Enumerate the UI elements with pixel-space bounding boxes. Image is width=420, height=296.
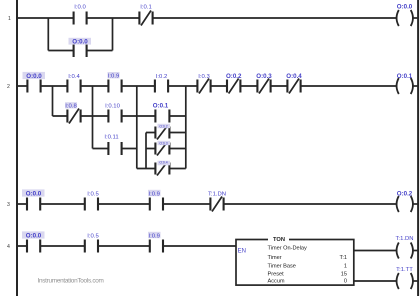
contact I:0.5 rung4 bbox=[85, 240, 98, 253]
svg-text:O:0.4: O:0.4 bbox=[159, 160, 167, 164]
contact O:0.0 rung4 bbox=[27, 240, 40, 253]
svg-text:Timer Base: Timer Base bbox=[268, 263, 296, 269]
highlight O:0.0 rung4 bbox=[22, 231, 45, 238]
coil O:0.1 bbox=[397, 78, 413, 94]
rung 2 branch verticals bbox=[52, 86, 54, 116]
svg-text:O:0.2: O:0.2 bbox=[397, 191, 413, 198]
coil O:0.2 bbox=[397, 196, 413, 212]
timer output wire DN bbox=[354, 280, 396, 282]
svg-text:I:0.9: I:0.9 bbox=[108, 74, 119, 80]
svg-text:I:0.8: I:0.8 bbox=[65, 103, 77, 109]
highlight I:0.8 bbox=[65, 102, 77, 108]
branch row NC O:0.4 wire bbox=[137, 168, 186, 170]
rung 1 wire bbox=[17, 17, 396, 19]
contact I:0.11 bbox=[108, 142, 121, 155]
svg-text:15: 15 bbox=[341, 272, 347, 278]
svg-text:O:0.1: O:0.1 bbox=[153, 103, 169, 110]
svg-text:Timer: Timer bbox=[268, 255, 282, 261]
contact T:1.DN NC rung3 bbox=[210, 197, 223, 212]
svg-text:T:1.DN: T:1.DN bbox=[395, 236, 413, 242]
svg-text:T:1: T:1 bbox=[340, 255, 347, 261]
right power rail bbox=[417, 0, 419, 296]
contact O:0.0 rung2 bbox=[27, 80, 40, 93]
branch row I:0.8 wire bbox=[53, 115, 93, 117]
contact O:0.4 NC small bbox=[155, 162, 169, 176]
highlight small O:0.3 bbox=[158, 141, 171, 145]
highlight I:0.9 rung2 bbox=[108, 72, 120, 78]
contact O:0.2 NC small bbox=[155, 126, 169, 140]
svg-text:I:0.4: I:0.4 bbox=[68, 74, 80, 80]
svg-text:O:0.0: O:0.0 bbox=[26, 73, 42, 80]
svg-text:I:0.11: I:0.11 bbox=[104, 135, 118, 141]
svg-text:I:0.9: I:0.9 bbox=[148, 233, 159, 239]
svg-text:O:0.0: O:0.0 bbox=[26, 191, 42, 198]
branch row O:0.1 wire bbox=[137, 115, 186, 117]
contact I:0.8 NC bbox=[67, 109, 80, 124]
svg-text:InstrumentationTools.com: InstrumentationTools.com bbox=[38, 277, 104, 284]
svg-text:4: 4 bbox=[7, 244, 10, 250]
contact I:0.0 bbox=[74, 12, 87, 25]
svg-text:O:0.0: O:0.0 bbox=[397, 4, 413, 11]
contact I:0.9 rung3 bbox=[150, 198, 163, 211]
contact O:0.0 seal-in bbox=[74, 44, 87, 57]
svg-text:O:0.3: O:0.3 bbox=[159, 141, 167, 145]
coil T:1.DN bbox=[397, 243, 413, 259]
branch row NC O:0.2 wire bbox=[146, 132, 186, 134]
svg-text:O:0.3: O:0.3 bbox=[256, 73, 272, 80]
contact O:0.2 NC bbox=[227, 79, 240, 94]
svg-text:Preset: Preset bbox=[268, 272, 285, 278]
svg-text:O:0.4: O:0.4 bbox=[286, 73, 302, 80]
contact O:0.4 NC bbox=[287, 79, 300, 94]
svg-text:O:0.1: O:0.1 bbox=[397, 73, 413, 80]
svg-text:I:0.10: I:0.10 bbox=[105, 104, 120, 110]
left power rail bbox=[16, 0, 18, 296]
rung 4 wire bbox=[17, 245, 236, 247]
svg-text:2: 2 bbox=[7, 84, 10, 90]
svg-text:O:0.0: O:0.0 bbox=[26, 233, 42, 240]
contact I:0.9 rung2 bbox=[108, 80, 121, 93]
timer block TON box bbox=[236, 240, 354, 286]
svg-text:Accum: Accum bbox=[268, 279, 285, 285]
contact I:0.10 bbox=[108, 110, 121, 123]
highlight I:0.9 rung3 bbox=[148, 190, 161, 196]
svg-text:I:0.0: I:0.0 bbox=[74, 5, 86, 11]
contact O:0.0 rung3 bbox=[27, 198, 40, 211]
svg-text:I:0.2: I:0.2 bbox=[156, 74, 167, 80]
rung 2 main wire bbox=[17, 85, 396, 87]
highlight small O:0.4 bbox=[158, 161, 171, 166]
contact I:0.2 bbox=[155, 80, 168, 93]
contact I:0.1 NC bbox=[139, 11, 152, 26]
branch row NC O:0.3 wire bbox=[146, 148, 186, 150]
svg-text:1: 1 bbox=[344, 263, 347, 269]
rung 1 branch wire bbox=[48, 18, 112, 51]
svg-text:Timer On-Delay: Timer On-Delay bbox=[268, 245, 307, 251]
coil O:0.0 bbox=[397, 10, 413, 26]
highlight O:0.0 rung3 bbox=[22, 189, 45, 196]
svg-text:T:1.TT: T:1.TT bbox=[396, 267, 413, 273]
svg-text:O:0.2: O:0.2 bbox=[226, 73, 242, 80]
svg-text:I:0.5: I:0.5 bbox=[87, 192, 99, 198]
rung 3 wire bbox=[17, 203, 396, 205]
svg-text:O:0.2: O:0.2 bbox=[159, 124, 167, 128]
svg-text:T:1.DN: T:1.DN bbox=[208, 192, 226, 198]
svg-text:3: 3 bbox=[7, 202, 10, 208]
svg-text:I:0.5: I:0.5 bbox=[87, 234, 99, 240]
TON title gap bbox=[268, 236, 289, 243]
svg-text:O:0.0: O:0.0 bbox=[72, 38, 88, 45]
svg-text:I:0.3: I:0.3 bbox=[198, 74, 210, 80]
contact I:0.3 NC bbox=[197, 79, 210, 94]
contact O:0.1 bbox=[155, 110, 169, 123]
branch row I:0.11 wire bbox=[93, 148, 137, 150]
highlight small O:0.2 bbox=[158, 124, 171, 128]
svg-text:I:0.1: I:0.1 bbox=[140, 5, 151, 11]
contact I:0.4 bbox=[67, 80, 80, 93]
highlight O:0.0 seal-in bbox=[69, 38, 92, 45]
contact O:0.3 NC bbox=[257, 79, 270, 94]
contact I:0.5 rung3 bbox=[85, 198, 98, 211]
timer output wire EN bbox=[354, 250, 396, 252]
svg-text:TON: TON bbox=[273, 237, 285, 243]
contact I:0.9 rung4 bbox=[150, 240, 163, 253]
svg-text:1: 1 bbox=[8, 16, 11, 22]
svg-text:EN: EN bbox=[238, 248, 246, 254]
branch row I:0.10 wire bbox=[93, 115, 137, 117]
contact O:0.3 NC small bbox=[155, 142, 169, 156]
svg-text:I:0.9: I:0.9 bbox=[148, 191, 159, 197]
svg-text:0: 0 bbox=[344, 279, 347, 285]
highlight O:0.0 rung2 bbox=[23, 72, 46, 79]
highlight I:0.9 rung4 bbox=[148, 232, 161, 238]
coil T:1.TT bbox=[397, 273, 413, 289]
